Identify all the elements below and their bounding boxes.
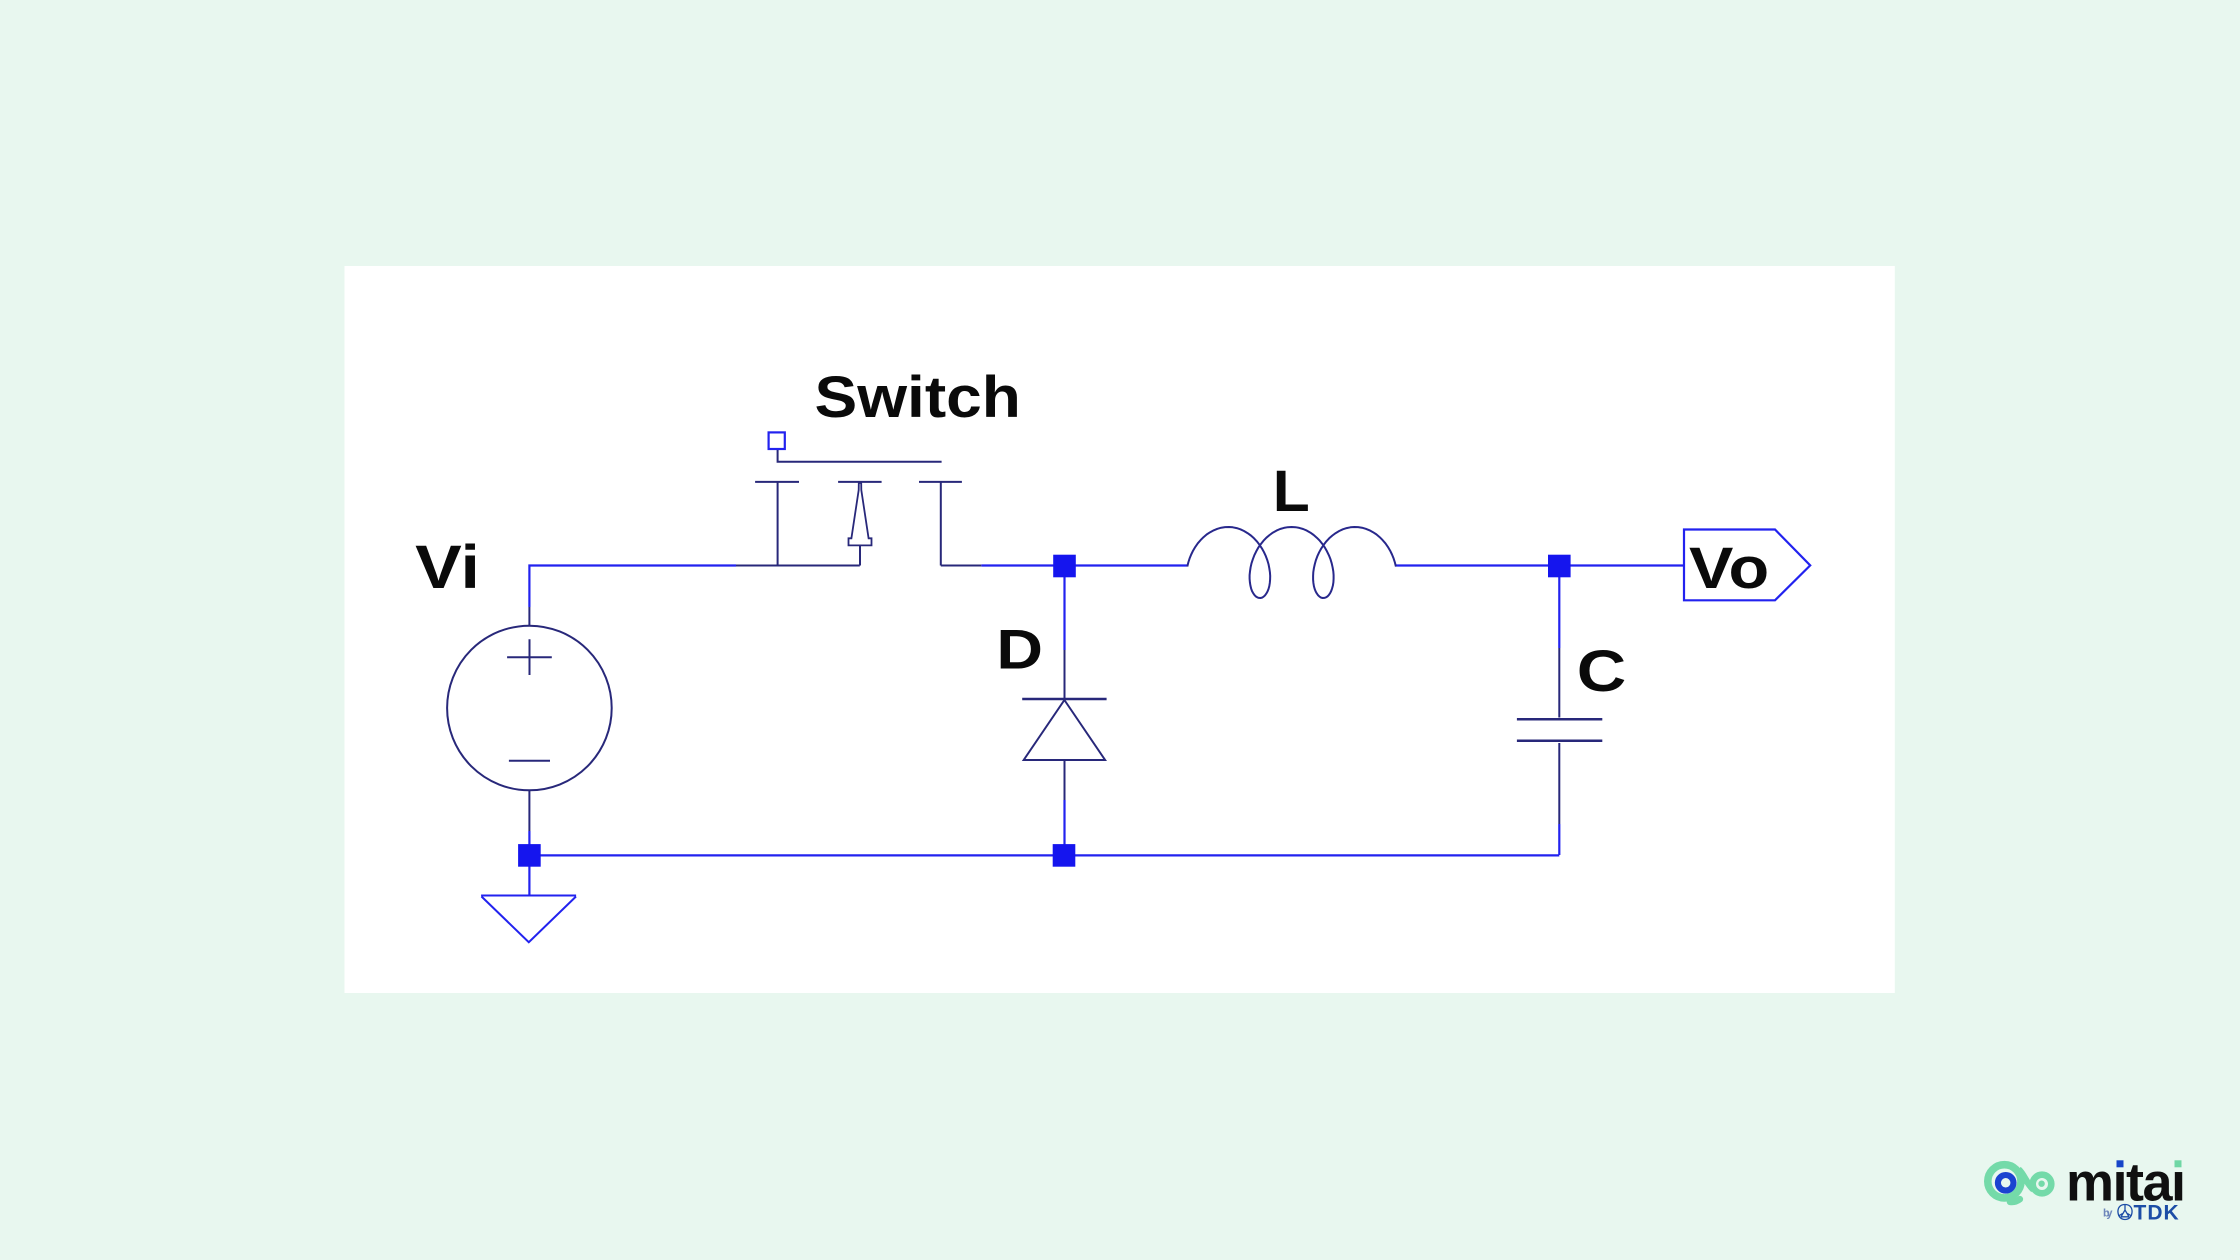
svg-text:C: C xyxy=(1577,639,1627,704)
svg-text:L: L xyxy=(1273,459,1310,524)
svg-text:Switch: Switch xyxy=(815,365,1021,430)
svg-text:Vi: Vi xyxy=(415,533,480,602)
svg-text:TDK: TDK xyxy=(2134,1201,2179,1224)
svg-text:by: by xyxy=(2103,1208,2113,1220)
svg-text:Vo: Vo xyxy=(1689,536,1769,601)
svg-text:D: D xyxy=(996,618,1043,681)
